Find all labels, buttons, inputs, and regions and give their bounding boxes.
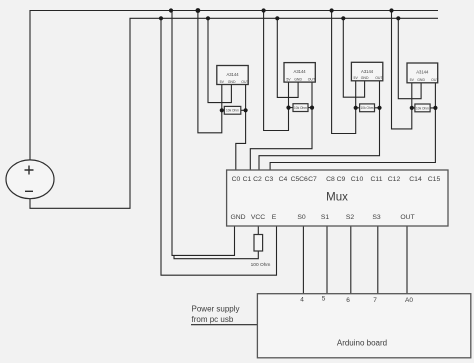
svg-text:A0: A0 <box>405 297 413 304</box>
svg-text:OUT: OUT <box>375 76 383 80</box>
svg-text:A3144: A3144 <box>226 72 239 77</box>
svg-text:Mux: Mux <box>326 192 348 204</box>
svg-text:S2: S2 <box>346 214 355 221</box>
svg-text:10k Ohm: 10k Ohm <box>416 106 429 110</box>
svg-text:OUT: OUT <box>308 77 316 81</box>
svg-text:C4: C4 <box>279 176 288 183</box>
svg-text:5V: 5V <box>220 80 225 84</box>
svg-text:C8: C8 <box>326 176 335 183</box>
svg-text:C10: C10 <box>351 176 364 183</box>
svg-text:6: 6 <box>346 297 350 304</box>
svg-text:A3144: A3144 <box>361 69 374 74</box>
svg-text:5V: 5V <box>410 78 415 82</box>
svg-text:GND: GND <box>294 77 302 81</box>
svg-text:C7: C7 <box>308 176 317 183</box>
svg-text:A3144: A3144 <box>294 69 307 74</box>
svg-text:C12: C12 <box>388 176 401 183</box>
svg-text:OUT: OUT <box>400 214 414 221</box>
svg-text:C1: C1 <box>243 176 252 183</box>
svg-text:7: 7 <box>373 297 377 304</box>
svg-text:5V: 5V <box>354 76 359 80</box>
svg-text:GND: GND <box>230 214 245 221</box>
svg-text:S3: S3 <box>372 214 381 221</box>
svg-text:OUT: OUT <box>431 78 439 82</box>
svg-text:from pc usb: from pc usb <box>192 315 234 324</box>
svg-text:5V: 5V <box>286 77 291 81</box>
svg-text:C15: C15 <box>428 176 441 183</box>
svg-text:10k Ohm: 10k Ohm <box>226 109 239 113</box>
svg-text:GND: GND <box>228 80 236 84</box>
svg-text:GND: GND <box>361 76 369 80</box>
svg-text:OUT: OUT <box>241 80 249 84</box>
svg-text:C9: C9 <box>337 176 346 183</box>
svg-text:C11: C11 <box>371 176 383 183</box>
svg-text:VCC: VCC <box>251 214 265 221</box>
svg-text:100 Ohm: 100 Ohm <box>251 262 271 268</box>
svg-text:C0: C0 <box>232 176 241 183</box>
svg-text:10k Ohm: 10k Ohm <box>294 106 307 110</box>
svg-text:C6: C6 <box>299 176 308 183</box>
svg-text:5: 5 <box>322 296 326 303</box>
svg-text:GND: GND <box>417 78 425 82</box>
svg-text:C2: C2 <box>253 176 262 183</box>
svg-text:S1: S1 <box>321 214 330 221</box>
svg-text:S0: S0 <box>297 214 306 221</box>
svg-text:C14: C14 <box>409 176 422 183</box>
svg-text:E: E <box>272 214 277 221</box>
svg-text:A3144: A3144 <box>416 70 429 75</box>
svg-text:Arduino board: Arduino board <box>337 339 387 348</box>
svg-text:4: 4 <box>300 297 304 304</box>
svg-text:10k Ohm: 10k Ohm <box>361 106 374 110</box>
svg-text:C3: C3 <box>265 176 274 183</box>
svg-text:Power supply: Power supply <box>192 305 240 314</box>
